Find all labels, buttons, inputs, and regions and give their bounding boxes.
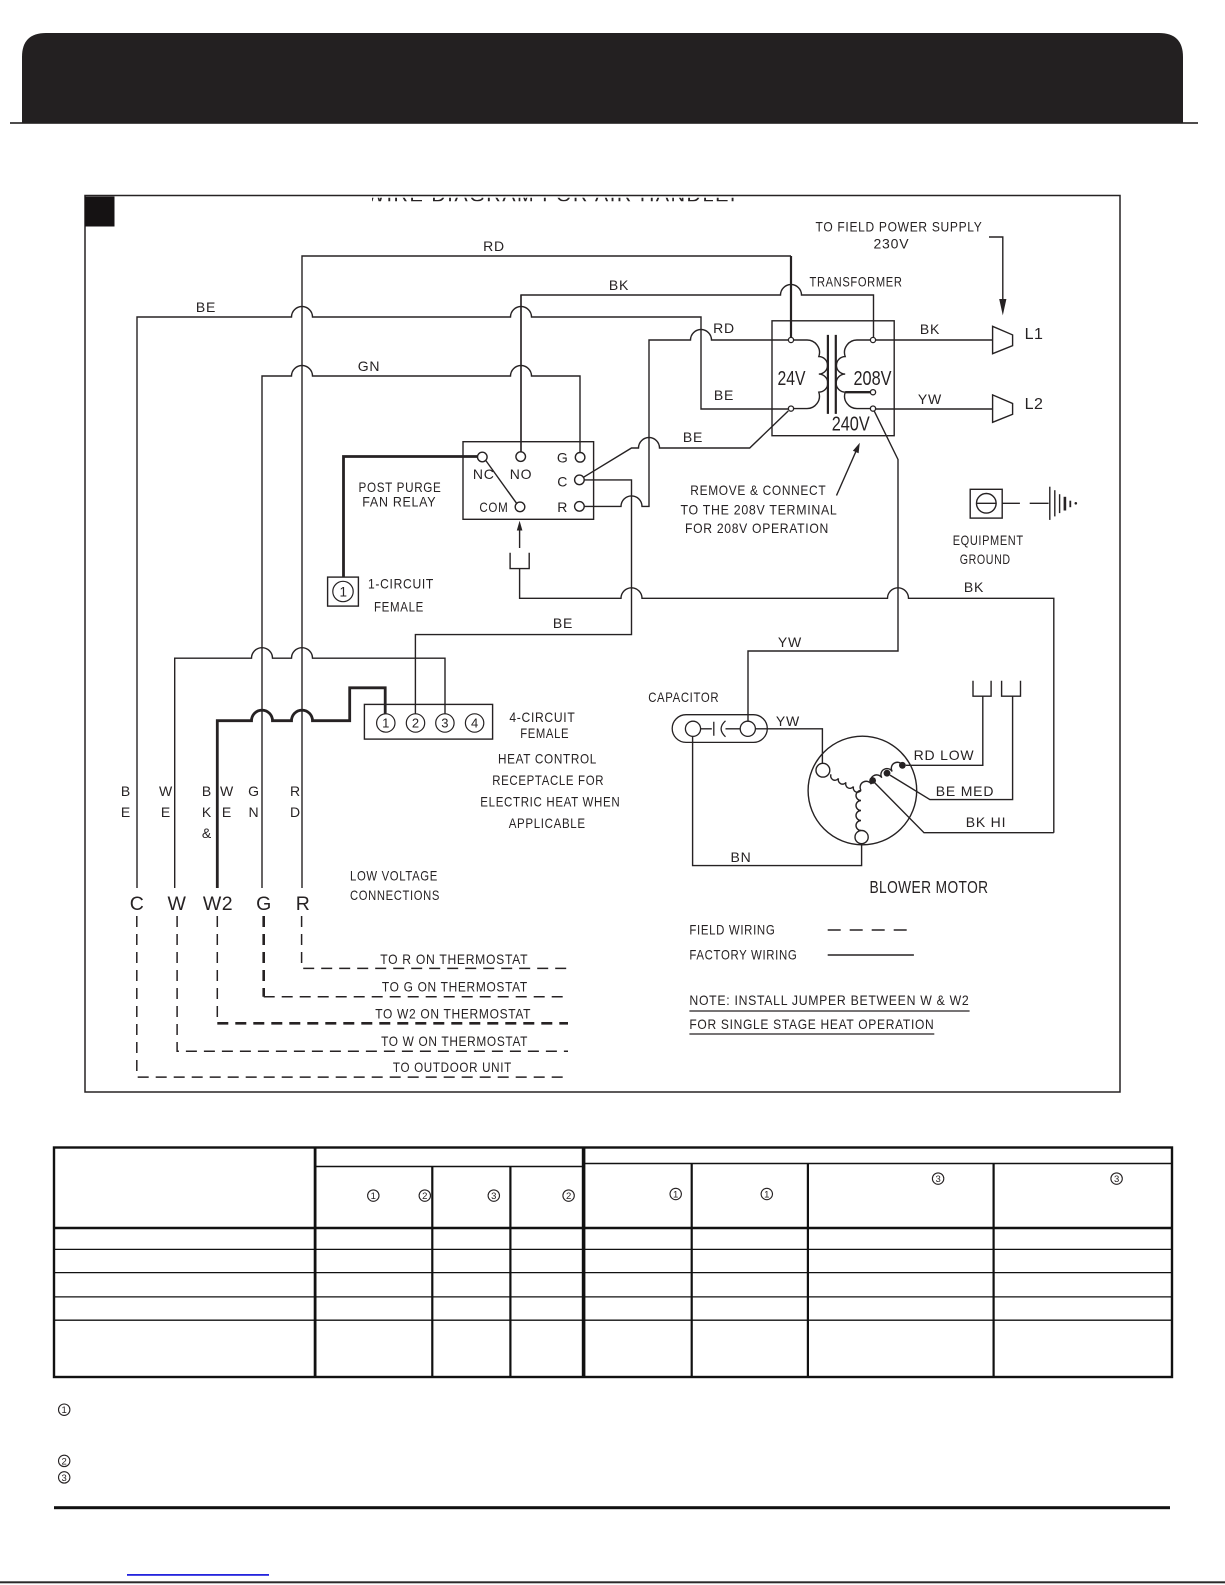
svg-text:RD: RD: [713, 320, 735, 336]
svg-text:CONNECTIONS: CONNECTIONS: [350, 887, 440, 903]
svg-text:L2: L2: [1025, 396, 1044, 413]
page bottom rule: [0, 1581, 1225, 1583]
field wire C to outdoor unit: [137, 916, 568, 1077]
wire RD LOW: [906, 696, 983, 765]
table footnote mark 1b: [670, 1188, 681, 1199]
svg-text:1: 1: [382, 716, 389, 731]
wire W2 run bold: [217, 688, 385, 888]
wire BE relay C to pin2: [415, 480, 631, 714]
equipment ground symbol: [970, 487, 1070, 520]
svg-text:YW: YW: [776, 713, 800, 729]
svg-text:NO: NO: [510, 466, 533, 482]
header banner: [22, 33, 1183, 123]
svg-text:G: G: [557, 449, 569, 465]
motor terminals: [816, 763, 868, 843]
wire RD relay R to transformer: [584, 330, 788, 507]
svg-text:NC: NC: [473, 466, 495, 482]
motor speed tap dots: [869, 762, 906, 784]
svg-text:24V: 24V: [778, 368, 807, 390]
footer link underline: [127, 1574, 269, 1576]
svg-text:TO OUTDOOR UNIT: TO OUTDOOR UNIT: [393, 1059, 512, 1075]
svg-text:BE: BE: [683, 429, 703, 445]
svg-text:W: W: [159, 783, 173, 799]
svg-text:2: 2: [422, 1191, 427, 1202]
svg-text:BE: BE: [714, 387, 734, 403]
table footnote mark 2a: [419, 1190, 430, 1201]
svg-text:GROUND: GROUND: [960, 551, 1011, 567]
field wire W to thermostat: [177, 916, 568, 1051]
svg-text:COM: COM: [479, 499, 508, 515]
svg-text:NOTE: INSTALL JUMPER BETWEEN W: NOTE: INSTALL JUMPER BETWEEN W & W2: [689, 992, 969, 1008]
svg-text:BE MED: BE MED: [936, 783, 994, 799]
wire field supply elbow: [989, 237, 1003, 301]
svg-text:208V: 208V: [854, 368, 893, 390]
svg-text:FEMALE: FEMALE: [374, 599, 424, 615]
svg-text:YW: YW: [778, 634, 802, 650]
svg-text:BK: BK: [920, 321, 940, 337]
svg-text:3: 3: [441, 716, 448, 731]
svg-text:3: 3: [62, 1473, 67, 1484]
svg-text:1: 1: [62, 1405, 67, 1416]
svg-text:4: 4: [471, 716, 478, 731]
wire BE main run: [137, 307, 788, 889]
svg-text:TO W ON THERMOSTAT: TO W ON THERMOSTAT: [381, 1033, 528, 1049]
svg-text:C: C: [557, 473, 568, 489]
svg-text:BE: BE: [196, 299, 216, 315]
wire BK HI: [875, 783, 1054, 833]
svg-text:W: W: [220, 783, 234, 799]
svg-text:E: E: [121, 804, 131, 820]
svg-text:TO THE 208V TERMINAL: TO THE 208V TERMINAL: [681, 502, 838, 518]
table footnote mark 3a: [488, 1190, 499, 1201]
table footnote mark 1c: [761, 1188, 772, 1199]
wire BE MED: [890, 696, 1013, 799]
svg-text:RECEPTACLE FOR: RECEPTACLE FOR: [492, 772, 604, 788]
svg-text:1-CIRCUIT: 1-CIRCUIT: [368, 576, 434, 592]
svg-text:L1: L1: [1025, 326, 1044, 343]
arrowhead field supply: [999, 299, 1006, 315]
svg-text:RD: RD: [483, 238, 505, 254]
svg-text:C: C: [130, 893, 145, 915]
svg-text:2: 2: [566, 1191, 571, 1202]
legend field wiring dash sample: [828, 929, 913, 931]
table footnote mark 3b: [932, 1173, 943, 1184]
wire COM arrow shaft: [519, 528, 521, 548]
footer heavy rule: [54, 1506, 1170, 1509]
svg-text:FIELD WIRING: FIELD WIRING: [689, 922, 775, 938]
wire BE relay C to transformer: [584, 411, 789, 477]
svg-text:HEAT CONTROL: HEAT CONTROL: [498, 751, 597, 767]
footnote mark 3: [58, 1472, 69, 1483]
table footnote mark 2b: [563, 1190, 574, 1201]
svg-text:D: D: [290, 804, 301, 820]
capacitor C1: [672, 715, 767, 743]
wire BK to L1: [876, 339, 993, 341]
field wire R to thermostat: [302, 916, 568, 968]
svg-text:W: W: [168, 893, 187, 915]
field wire G vertical bold: [262, 916, 265, 997]
svg-text:FACTORY WIRING: FACTORY WIRING: [689, 947, 797, 963]
header rule: [10, 122, 1198, 124]
svg-text:W2: W2: [203, 893, 233, 915]
svg-text:1: 1: [764, 1189, 769, 1200]
svg-text:TRANSFORMER: TRANSFORMER: [810, 274, 903, 290]
connector 1-circuit female: [328, 577, 359, 606]
spec table grid: [54, 1148, 1172, 1378]
terminal L2: [993, 395, 1013, 422]
transformer T1: [772, 321, 894, 436]
svg-text:E: E: [222, 804, 232, 820]
wire YW to L2: [876, 408, 993, 410]
svg-text:G: G: [256, 893, 272, 915]
wire YW capacitor to motor: [755, 729, 822, 764]
svg-text:FAN RELAY: FAN RELAY: [362, 494, 436, 510]
svg-text:BK HI: BK HI: [966, 814, 1007, 830]
connector 4-circuit female: [364, 704, 492, 739]
svg-text:TO FIELD POWER SUPPLY: TO FIELD POWER SUPPLY: [816, 218, 983, 234]
svg-text:3: 3: [491, 1191, 496, 1202]
corner block: [85, 197, 115, 227]
spade connector RD LOW: [973, 681, 991, 696]
svg-text:230V: 230V: [873, 236, 909, 252]
note underline 2: [689, 1033, 934, 1035]
svg-text:B: B: [121, 783, 131, 799]
svg-text:GN: GN: [358, 358, 381, 374]
svg-text:G: G: [248, 783, 260, 799]
arrowhead COM: [517, 521, 523, 531]
diagram frame: [85, 196, 1120, 1093]
svg-text:R: R: [296, 893, 311, 915]
svg-text:RD LOW: RD LOW: [914, 747, 975, 763]
spade connector BE MED: [1002, 681, 1021, 696]
table footnote mark 3c: [1111, 1173, 1122, 1184]
wire BK NO drop: [520, 295, 522, 452]
blower motor M1: [808, 736, 917, 845]
svg-text:3: 3: [1114, 1174, 1119, 1185]
wire YW 240V to capacitor: [748, 411, 898, 721]
wire BN: [693, 736, 862, 865]
wire RD drop to transformer: [790, 256, 792, 337]
svg-text:TO R ON THERMOSTAT: TO R ON THERMOSTAT: [380, 951, 528, 967]
terminal L1: [993, 326, 1013, 353]
svg-text:2: 2: [62, 1456, 67, 1467]
svg-text:E: E: [161, 804, 171, 820]
note underline 1: [689, 1010, 969, 1012]
field wire W2 horizontal bold: [217, 1022, 568, 1025]
svg-text:K: K: [202, 804, 212, 820]
svg-text:YW: YW: [918, 391, 942, 407]
svg-text:2: 2: [412, 716, 419, 731]
svg-text:ELECTRIC HEAT WHEN: ELECTRIC HEAT WHEN: [480, 794, 620, 810]
svg-text:R: R: [290, 783, 301, 799]
svg-text:BK: BK: [609, 277, 629, 293]
svg-text:R: R: [557, 499, 568, 515]
legend factory wiring sample: [828, 954, 914, 956]
wire RD top run: [302, 256, 791, 888]
svg-text:1: 1: [339, 584, 347, 599]
wire BK fan speed from COM connector: [520, 569, 1054, 833]
svg-text:BK: BK: [964, 579, 984, 595]
svg-text:APPLICABLE: APPLICABLE: [509, 815, 586, 831]
svg-text:4-CIRCUIT: 4-CIRCUIT: [509, 709, 575, 725]
svg-text:BE: BE: [553, 615, 573, 631]
relay terminals: [478, 452, 585, 512]
connector COM spade: [510, 553, 529, 569]
svg-text:FOR SINGLE STAGE HEAT OPERATIO: FOR SINGLE STAGE HEAT OPERATION: [689, 1016, 934, 1032]
svg-text:BLOWER MOTOR: BLOWER MOTOR: [870, 877, 989, 897]
svg-text:1: 1: [673, 1189, 678, 1200]
svg-text:B: B: [202, 783, 212, 799]
relay K1 post purge fan relay: [463, 442, 594, 520]
svg-text:N: N: [249, 804, 260, 820]
wire GN run: [262, 366, 580, 889]
svg-text:REMOVE & CONNECT: REMOVE & CONNECT: [690, 482, 826, 498]
svg-text:1: 1: [371, 1191, 376, 1202]
svg-text:3: 3: [935, 1174, 940, 1185]
svg-text:LOW VOLTAGE: LOW VOLTAGE: [350, 868, 438, 884]
svg-text:TO G ON THERMOSTAT: TO G ON THERMOSTAT: [382, 979, 528, 995]
svg-text:CAPACITOR: CAPACITOR: [648, 689, 719, 705]
transformer terminals: [788, 337, 875, 411]
svg-text:EQUIPMENT: EQUIPMENT: [953, 532, 1024, 548]
footnote mark 1: [58, 1404, 69, 1415]
field wire G horizontal: [264, 996, 568, 998]
svg-text:&: &: [202, 825, 212, 841]
svg-text:FOR 208V OPERATION: FOR 208V OPERATION: [685, 520, 829, 536]
field wire W2 vertical: [216, 916, 218, 1018]
wire RD post purge bold: [344, 457, 478, 578]
wire W run: [175, 648, 445, 888]
svg-text:BN: BN: [730, 849, 751, 865]
svg-text:TO W2 ON THERMOSTAT: TO W2 ON THERMOSTAT: [375, 1006, 531, 1022]
wire BK transformer feed: [521, 285, 874, 452]
svg-text:FEMALE: FEMALE: [520, 725, 569, 741]
footnote mark 2: [58, 1455, 69, 1466]
table footnote mark 1a: [368, 1190, 379, 1201]
arrow to transformer shaft: [837, 452, 856, 496]
arrowhead remove-connect: [853, 443, 860, 454]
svg-text:240V: 240V: [832, 413, 871, 435]
